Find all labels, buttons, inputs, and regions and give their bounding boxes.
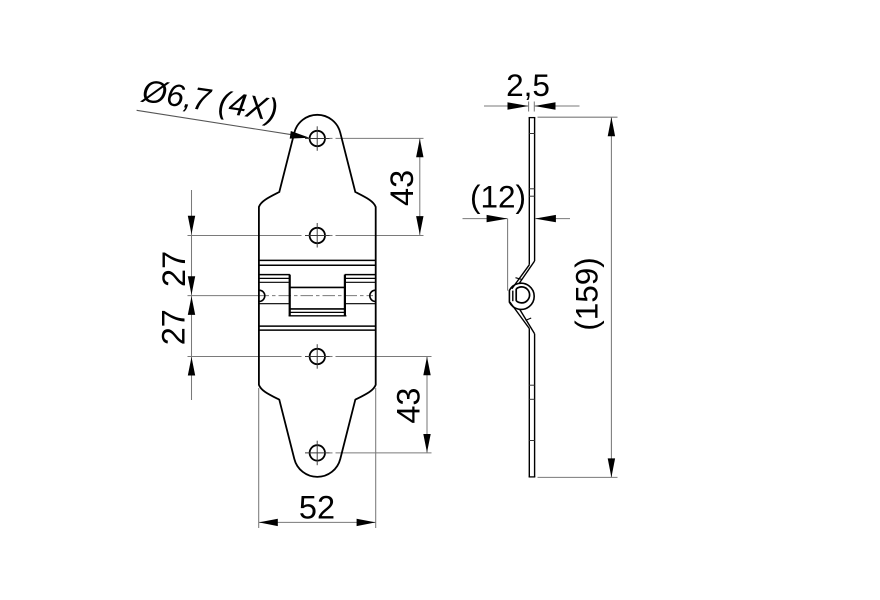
- hole 1: [310, 131, 325, 146]
- arrow 27 bottom up: [188, 357, 195, 376]
- svg-text:27: 27: [156, 251, 192, 287]
- arrow 52 right: [357, 519, 376, 526]
- arrow 43 lower bottom: [423, 434, 430, 453]
- side view strip right face lower: [534, 334, 536, 477]
- dimension line 2,5 left tail: [484, 105, 528, 107]
- side knuckle inner D flat: [515, 289, 517, 301]
- side view top cap: [529, 117, 536, 119]
- extension line hole2 across: [188, 235, 302, 237]
- arrow 2,5 left: [508, 102, 529, 109]
- arrow 43 lower top: [423, 357, 430, 376]
- arrow 43 upper bottom: [416, 216, 423, 235]
- lower diagonal left line: [510, 302, 529, 329]
- knuckle top edge: [291, 286, 345, 288]
- dimension line 52: [259, 521, 376, 523]
- arrow 27 top down: [188, 216, 195, 235]
- arrow 27 mid down: [188, 276, 195, 295]
- knuckle left vertical: [289, 275, 291, 317]
- hole 3: [310, 349, 325, 364]
- extension line 52 left: [258, 388, 260, 528]
- strip tick 5: [529, 398, 534, 400]
- strip tick 2: [529, 188, 534, 190]
- svg-text:27: 27: [156, 309, 192, 345]
- upper leaf bend line 1: [259, 259, 376, 261]
- arrow 2,5 right: [535, 102, 556, 109]
- strip tick 6: [529, 440, 534, 442]
- hole 4: [310, 445, 325, 460]
- left step line 2: [259, 277, 290, 279]
- leader arrowhead: [290, 131, 310, 139]
- pin end right: [370, 290, 376, 301]
- lower diagonal right line: [519, 309, 534, 334]
- extension line 2,5 right: [533, 102, 535, 112]
- arrow 159 bottom: [608, 458, 615, 477]
- arrow 12 right: [535, 215, 556, 222]
- right step line 2: [345, 277, 376, 279]
- hole 2: [310, 228, 325, 243]
- right pocket top: [346, 281, 376, 283]
- strip tick 4: [529, 384, 534, 386]
- arrow 52 left: [259, 519, 278, 526]
- upper diagonal left line: [512, 265, 530, 289]
- svg-text:2,5: 2,5: [506, 67, 550, 103]
- dimension line 159: [610, 117, 612, 477]
- dimension line 27/27: [191, 190, 193, 400]
- extension line 12: [507, 219, 509, 291]
- extension line hole1 right: [330, 137, 333, 139]
- side view bottom cap: [529, 476, 536, 478]
- dimension line 2,5 right tail: [535, 105, 580, 107]
- extension line 159 top: [538, 116, 618, 118]
- dimension line 12 right tail: [535, 218, 570, 220]
- right step line 1: [345, 274, 376, 276]
- svg-text:(12): (12): [470, 179, 526, 215]
- extension line 52 right: [375, 388, 377, 528]
- extension line pin center left: [188, 295, 257, 297]
- dimension line 43 upper: [419, 138, 421, 235]
- hole 2 crosshair: [305, 235, 330, 237]
- hole 4 crosshair: [305, 452, 330, 454]
- left pocket bottom: [259, 303, 289, 305]
- strip tick 1: [529, 133, 534, 135]
- svg-text:43: 43: [391, 388, 427, 424]
- left pocket top: [259, 281, 289, 283]
- side knuckle outer: [509, 283, 534, 309]
- leader line for hole label: [137, 110, 298, 135]
- knuckle bottom edge: [291, 308, 345, 310]
- hole 1 crosshair: [305, 138, 330, 140]
- pin center line dashed: [257, 295, 374, 297]
- arrow 12 left: [487, 215, 508, 222]
- side view strip right face upper: [534, 118, 536, 261]
- side knuckle inner D arc: [516, 287, 529, 303]
- arrow 43 upper top: [416, 139, 423, 158]
- extension line 2,5 left: [528, 102, 530, 112]
- svg-text:52: 52: [299, 490, 335, 526]
- knuckle flange line 2: [289, 315, 347, 317]
- left step line 1: [259, 274, 290, 276]
- right pocket bottom: [346, 303, 376, 305]
- extension line 159 bottom: [538, 476, 618, 478]
- pin end left: [259, 290, 265, 301]
- side view strip left face lower: [528, 329, 530, 477]
- lower leaf bend line 1: [259, 325, 376, 327]
- svg-text:(159): (159): [569, 257, 605, 331]
- arrow 159 top: [608, 117, 615, 136]
- lower leaf bend line 2: [259, 329, 376, 331]
- arrow 27 mid up: [188, 296, 195, 315]
- extension line hole3 across: [188, 356, 302, 358]
- side view strip left face upper: [528, 118, 530, 265]
- side knuckle strip end edge: [512, 291, 514, 302]
- lower band end tick: [526, 318, 532, 320]
- front view outline: [259, 115, 376, 477]
- upper leaf bend line 2: [259, 264, 376, 266]
- knuckle right vertical: [344, 275, 346, 317]
- strip tick 3: [529, 195, 534, 197]
- upper diagonal right line: [519, 261, 534, 283]
- dimension line 12 left tail: [463, 218, 508, 220]
- upper band end tick: [516, 278, 523, 280]
- svg-text:43: 43: [384, 170, 420, 206]
- knuckle flange line 1: [290, 311, 346, 313]
- dimension line 43 lower: [426, 356, 428, 453]
- extension line hole4 right: [330, 452, 333, 454]
- hole 3 crosshair: [305, 356, 330, 358]
